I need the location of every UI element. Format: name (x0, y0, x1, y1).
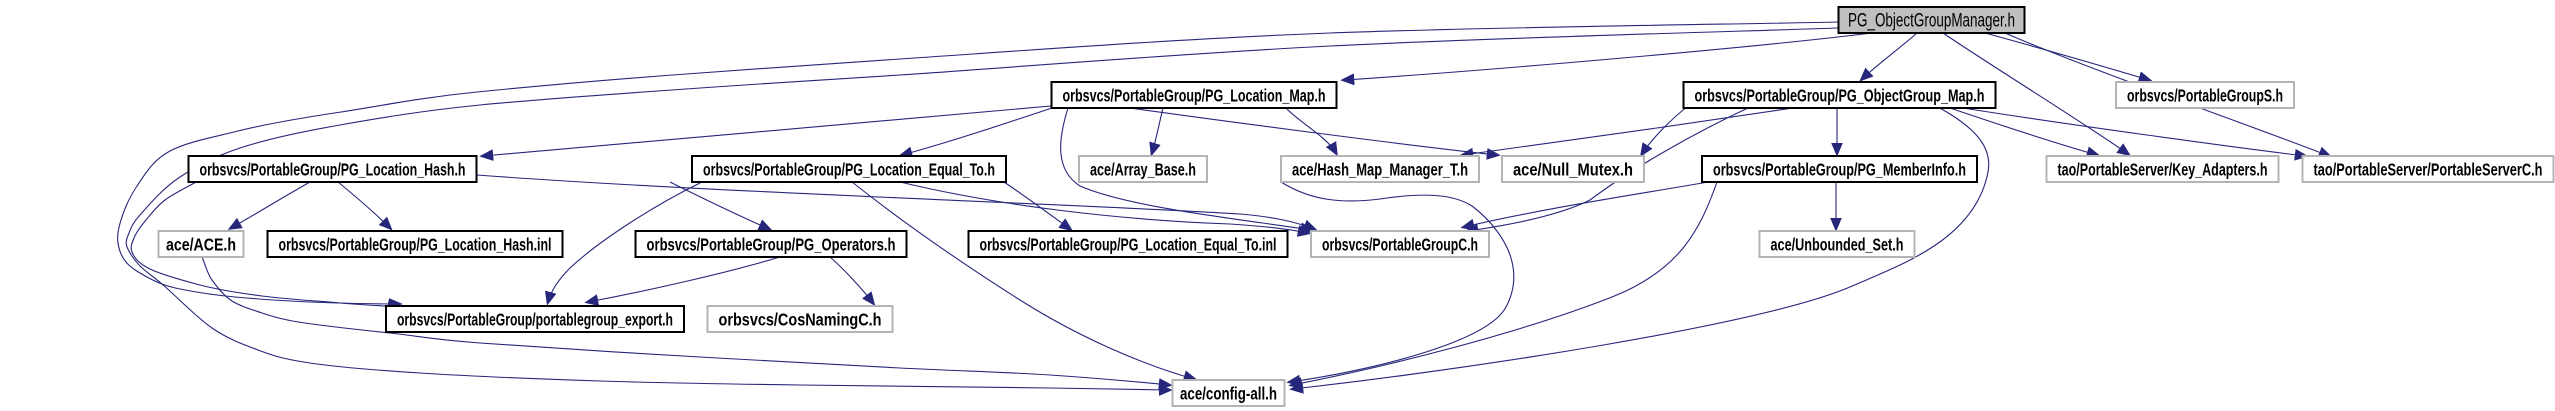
svg-text:orbsvcs/PortableGroup/PG_Locat: orbsvcs/PortableGroup/PG_Location_Equal_… (703, 160, 995, 180)
svg-text:orbsvcs/PortableGroup/PG_Locat: orbsvcs/PortableGroup/PG_Location_Hash.i… (279, 235, 552, 255)
svg-text:orbsvcs/PortableGroup/PG_Opera: orbsvcs/PortableGroup/PG_Operators.h (647, 235, 896, 255)
svg-text:ace/Hash_Map_Manager_T.h: ace/Hash_Map_Manager_T.h (1292, 160, 1468, 180)
svg-text:ace/config-all.h: ace/config-all.h (1180, 384, 1277, 404)
svg-text:ace/ACE.h: ace/ACE.h (166, 235, 236, 255)
svg-text:tao/PortableServer/PortableSer: tao/PortableServer/PortableServerC.h (2314, 160, 2543, 180)
svg-text:PG_ObjectGroupManager.h: PG_ObjectGroupManager.h (1848, 11, 2015, 32)
svg-text:orbsvcs/PortableGroupC.h: orbsvcs/PortableGroupC.h (1322, 235, 1478, 255)
svg-text:orbsvcs/PortableGroup/PG_Locat: orbsvcs/PortableGroup/PG_Location_Equal_… (980, 235, 1277, 255)
svg-text:ace/Unbounded_Set.h: ace/Unbounded_Set.h (1771, 235, 1904, 255)
svg-text:ace/Array_Base.h: ace/Array_Base.h (1090, 160, 1196, 180)
svg-text:ace/Null_Mutex.h: ace/Null_Mutex.h (1513, 160, 1633, 180)
svg-text:orbsvcs/PortableGroup/PG_Objec: orbsvcs/PortableGroup/PG_ObjectGroup_Map… (1695, 86, 1985, 106)
svg-text:orbsvcs/PortableGroupS.h: orbsvcs/PortableGroupS.h (2127, 86, 2283, 106)
svg-text:orbsvcs/PortableGroup/PG_Locat: orbsvcs/PortableGroup/PG_Location_Map.h (1063, 86, 1326, 106)
svg-text:orbsvcs/PortableGroup/PG_Locat: orbsvcs/PortableGroup/PG_Location_Hash.h (200, 160, 466, 180)
svg-text:orbsvcs/PortableGroup/portable: orbsvcs/PortableGroup/portablegroup_expo… (397, 310, 673, 330)
svg-text:orbsvcs/PortableGroup/PG_Membe: orbsvcs/PortableGroup/PG_MemberInfo.h (1713, 160, 1966, 180)
svg-text:orbsvcs/CosNamingC.h: orbsvcs/CosNamingC.h (719, 310, 882, 330)
svg-text:tao/PortableServer/Key_Adapter: tao/PortableServer/Key_Adapters.h (2058, 160, 2268, 180)
